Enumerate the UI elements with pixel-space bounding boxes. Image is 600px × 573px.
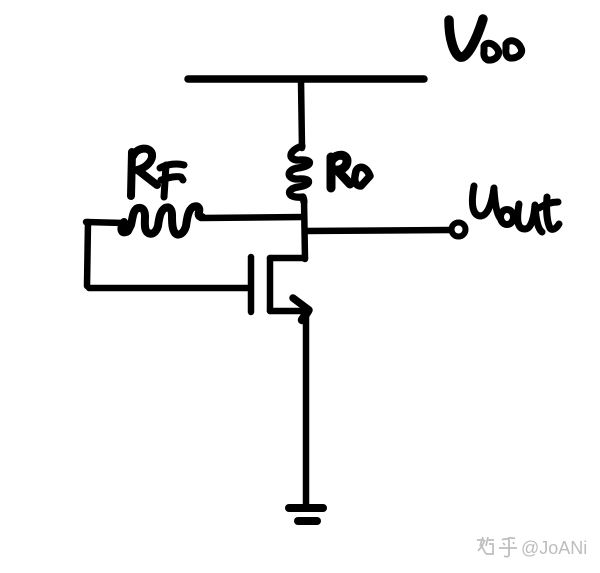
label Vout : t — [547, 197, 559, 229]
label Vout : u — [518, 204, 535, 229]
label RD : D — [355, 167, 370, 186]
label Vout : o — [501, 210, 514, 225]
label VDD : V — [449, 19, 483, 57]
wire source lead — [270, 308, 306, 315]
wire RF right to drain node — [201, 217, 304, 218]
label VDD : D1 — [484, 43, 499, 60]
wire rail to RD — [301, 80, 302, 148]
svg-text:@JoANi: @JoANi — [521, 538, 587, 558]
wire RD to drain node — [304, 199, 305, 259]
resistor RD — [289, 146, 309, 202]
label VDD : D2 — [506, 41, 522, 58]
label Vout : V — [472, 186, 494, 216]
watermark 知乎 @JoANi — [477, 537, 517, 557]
label RF : R — [131, 152, 132, 196]
ground bar 1 — [289, 504, 323, 512]
wire feedback bottom to gate — [89, 285, 248, 292]
label RD : R — [327, 157, 336, 188]
resistor RF — [121, 206, 202, 234]
label RF : F — [164, 165, 166, 197]
ground bar 2 — [298, 517, 317, 525]
wire Vout — [305, 230, 450, 231]
wire source to ground — [303, 312, 310, 506]
wire drain lead — [270, 255, 305, 262]
wire RF left — [86, 222, 124, 223]
transistor M1 gate bar — [248, 257, 255, 312]
wire VDD rail — [188, 75, 424, 83]
transistor M1 channel bar — [267, 258, 274, 311]
wire feedback left vertical — [87, 222, 88, 286]
transistor M1 source arrow — [293, 298, 309, 310]
node Vout terminal — [452, 223, 466, 237]
